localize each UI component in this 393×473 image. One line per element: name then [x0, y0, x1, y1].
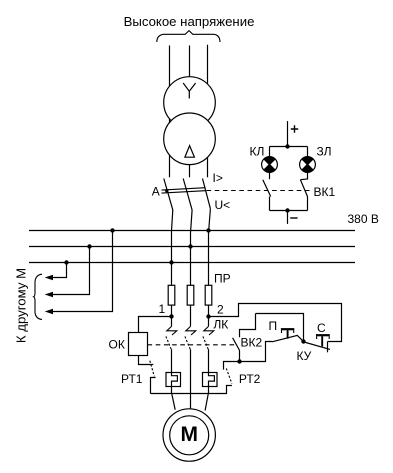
- bus line 1: [29, 230, 355, 232]
- tap from bus 1 to other motor: [49, 231, 113, 312]
- РТ1 contact hook: [151, 378, 156, 394]
- phase 2 drop breaker to fuse: [191, 210, 193, 285]
- tap from bus 3 to other motor: [49, 263, 67, 278]
- svg-text:ВК2: ВК2: [241, 336, 263, 350]
- svg-text:КУ: КУ: [297, 349, 312, 363]
- node 2 dot: [206, 314, 210, 318]
- breaker blade phase 3: [203, 179, 211, 209]
- svg-text:ОК: ОК: [109, 338, 125, 352]
- junction dot below ВК2: [237, 359, 241, 363]
- svg-text:КЛ: КЛ: [250, 145, 265, 159]
- svg-text:I>: I>: [213, 171, 223, 185]
- phase 3 fuse to node 2: [208, 305, 210, 316]
- svg-text:ЗЛ: ЗЛ: [317, 145, 332, 159]
- svg-text:РТ1: РТ1: [121, 372, 143, 386]
- ZL branch lower wire: [307, 197, 309, 211]
- wire HV phase 3: [207, 45, 209, 178]
- wire КУ holding loop: [256, 314, 304, 342]
- ВК2 contact top terminal: [240, 314, 256, 338]
- С button actuator: [316, 334, 330, 336]
- wire node 1 to ОК coil: [139, 317, 172, 333]
- motor lead phase 3: [205, 387, 208, 411]
- plus supply lead: [287, 121, 289, 146]
- svg-text:ЛК: ЛК: [213, 318, 228, 332]
- transformer T secondary winding: [164, 113, 216, 165]
- РТ2 contact blade: [226, 368, 232, 383]
- wire dot to П button: [240, 342, 273, 362]
- РТ1 heater element: [166, 373, 181, 387]
- junction dot phase1-bus3: [169, 260, 173, 264]
- ZL lamp lower stem: [300, 172, 307, 179]
- junction dot plus: [285, 144, 289, 148]
- svg-text:П: П: [269, 319, 278, 333]
- junction dot phase2-bus2: [188, 244, 192, 248]
- wire HV phase 2: [189, 46, 191, 178]
- wire node 2 to stop button (outer loop): [209, 304, 342, 342]
- wire HV phase 1: [169, 46, 171, 178]
- dashed link ОК to ВК2: [148, 344, 237, 346]
- KL lamp lower stem: [269, 172, 271, 179]
- ОК coil box: [129, 333, 148, 356]
- fuse ПР phase 2: [187, 285, 194, 305]
- svg-text:ВК1: ВК1: [314, 185, 336, 199]
- ВК2 bottom terminal: [239, 351, 241, 362]
- lamp branch bottom wire: [270, 210, 308, 212]
- breaker blade phase 2: [183, 179, 192, 210]
- breaker blade phase 1: [164, 179, 173, 210]
- svg-text:М: М: [180, 423, 198, 446]
- motor M: [163, 409, 215, 461]
- ЛК main contact phase 3: [203, 317, 214, 373]
- РТ1 contact blade: [150, 361, 155, 377]
- plus sign: [291, 125, 298, 132]
- motor lead phase 1: [172, 387, 176, 410]
- svg-text:U<: U<: [215, 198, 231, 212]
- minus supply lead: [287, 211, 289, 224]
- KL branch lower wire: [269, 197, 271, 211]
- svg-text:А: А: [152, 185, 160, 199]
- С button contact bar: [304, 342, 330, 349]
- wire dot to РТ2 contact: [224, 362, 240, 370]
- phase 1 fuse to node 1: [171, 305, 173, 316]
- svg-text:380 В: 380 В: [348, 212, 379, 226]
- phase 3 drop breaker to fuse: [209, 209, 211, 286]
- node 1 dot: [169, 314, 173, 318]
- lamp КЛ: [262, 157, 278, 173]
- transformer T primary winding: [164, 77, 216, 129]
- bottom return wire: [151, 393, 228, 395]
- circuit breaker A bar (double line): [162, 188, 206, 190]
- svg-text:К другому М: К другому М: [14, 268, 29, 343]
- junction dot on breaker bar: [165, 189, 168, 192]
- РТ2 contact hook: [227, 386, 232, 394]
- svg-text:Высокое напряжение: Высокое напряжение: [124, 14, 255, 29]
- ЛК main contact phase 1: [166, 317, 177, 373]
- svg-text:2: 2: [217, 303, 224, 317]
- junction dot КУ: [301, 339, 305, 343]
- Y winding symbol: [183, 83, 195, 99]
- brace over HV feeder: [157, 31, 220, 42]
- junction dot minus: [285, 208, 289, 212]
- ЛК main contact phase 2: [185, 305, 196, 408]
- lamp branch top wire: [270, 146, 308, 148]
- phase 1 drop breaker to fuse: [172, 210, 173, 285]
- svg-text:1: 1: [159, 302, 166, 316]
- П button contact bar: [272, 335, 303, 341]
- РТ2 heater element: [203, 373, 218, 387]
- dashed link breaker to BK1: [207, 190, 312, 192]
- junction dot phase3-bus1: [206, 228, 210, 232]
- bus line 2: [29, 246, 355, 248]
- wire ОК to РТ1 contact: [139, 356, 154, 365]
- fuse ПР phase 1: [168, 285, 175, 305]
- brace for other motor taps: [34, 274, 42, 319]
- fuse ПР phase 3: [205, 285, 212, 305]
- svg-text:С: С: [317, 321, 326, 335]
- ZL lamp stem: [307, 147, 309, 157]
- С button fixed stub: [327, 342, 329, 353]
- BK1 contact left blade: [263, 180, 271, 197]
- svg-text:РТ2: РТ2: [239, 372, 261, 386]
- lamp ЗЛ: [300, 157, 316, 173]
- П button actuator: [281, 328, 294, 330]
- KL lamp stem: [269, 147, 271, 157]
- BK1 contact right blade: [300, 180, 307, 197]
- ВК2 contact blade: [233, 338, 240, 351]
- bus line 3: [29, 262, 355, 264]
- tap from bus 2 to other motor: [49, 247, 90, 295]
- delta winding symbol: [185, 146, 195, 158]
- minus sign: [290, 217, 297, 219]
- svg-text:ПР: ПР: [214, 272, 231, 286]
